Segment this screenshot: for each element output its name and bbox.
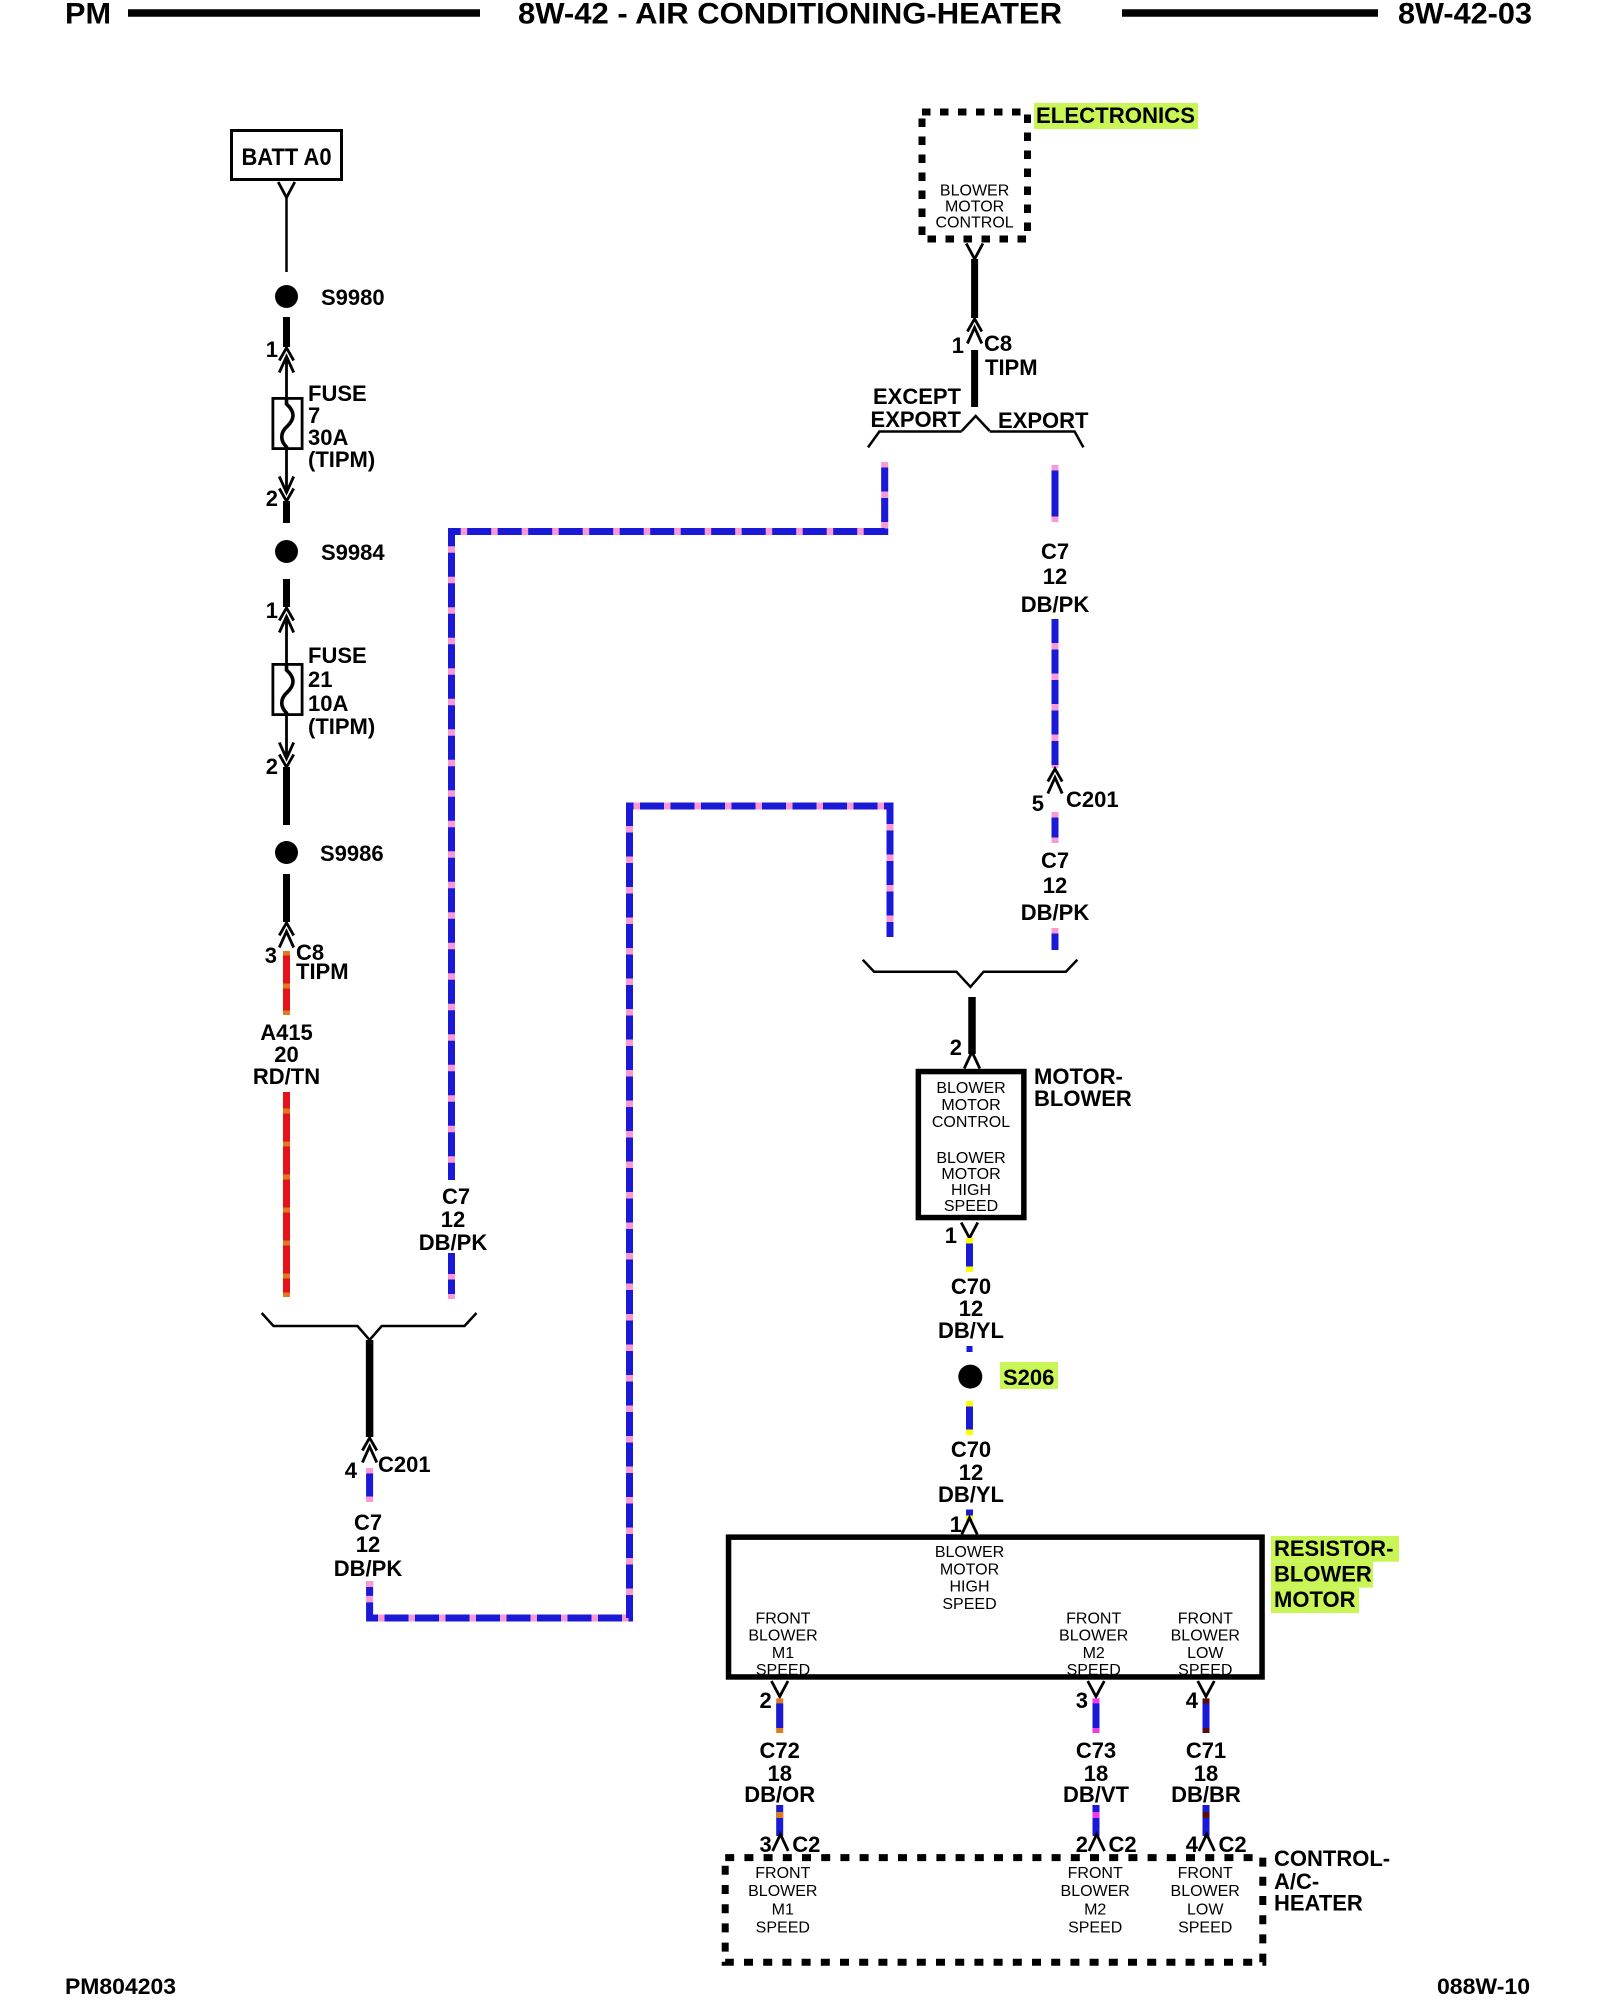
svg-text:BLOWER: BLOWER [1171, 1628, 1240, 1645]
svg-text:FRONT: FRONT [1178, 1865, 1233, 1882]
svg-text:HEATER: HEATER [1274, 1891, 1363, 1916]
svg-text:MOTOR: MOTOR [945, 199, 1004, 216]
svg-text:(TIPM): (TIPM) [308, 714, 375, 739]
svg-text:BLOWER: BLOWER [936, 1080, 1005, 1097]
svg-text:C7: C7 [442, 1184, 470, 1209]
svg-text:ELECTRONICS: ELECTRONICS [1036, 103, 1195, 128]
svg-text:DB/OR: DB/OR [744, 1782, 815, 1807]
svg-text:C2: C2 [1219, 1832, 1247, 1857]
svg-text:M2: M2 [1083, 1645, 1105, 1662]
svg-text:CONTROL: CONTROL [932, 1114, 1010, 1131]
svg-text:HIGH: HIGH [950, 1579, 990, 1596]
svg-text:FRONT: FRONT [1178, 1611, 1233, 1628]
svg-text:DB/VT: DB/VT [1063, 1782, 1130, 1807]
svg-text:12: 12 [356, 1532, 380, 1557]
svg-text:S9980: S9980 [321, 285, 385, 310]
svg-text:C2: C2 [792, 1832, 820, 1857]
svg-text:5: 5 [1032, 791, 1044, 816]
svg-text:C72: C72 [760, 1738, 800, 1763]
svg-text:C73: C73 [1076, 1738, 1116, 1763]
svg-text:BATT A0: BATT A0 [242, 144, 332, 171]
svg-text:DB/PK: DB/PK [334, 1556, 403, 1581]
svg-text:2: 2 [266, 486, 278, 511]
svg-text:1: 1 [950, 1512, 962, 1537]
svg-text:2: 2 [759, 1688, 771, 1713]
svg-text:(TIPM): (TIPM) [308, 447, 375, 472]
svg-text:SPEED: SPEED [756, 1662, 810, 1679]
svg-text:BLOWER: BLOWER [1061, 1883, 1130, 1900]
svg-text:8W-42-03: 8W-42-03 [1398, 0, 1532, 31]
svg-text:2: 2 [1076, 1832, 1088, 1857]
svg-text:FRONT: FRONT [755, 1865, 810, 1882]
svg-text:1: 1 [945, 1223, 957, 1248]
svg-text:BLOWER: BLOWER [1059, 1628, 1128, 1645]
svg-text:C201: C201 [378, 1452, 431, 1477]
svg-text:BLOWER: BLOWER [1171, 1883, 1240, 1900]
svg-text:SPEED: SPEED [1178, 1920, 1232, 1937]
svg-text:EXPORT: EXPORT [871, 407, 962, 432]
svg-text:SPEED: SPEED [1178, 1662, 1232, 1679]
svg-text:1: 1 [952, 333, 964, 358]
svg-text:2: 2 [950, 1035, 962, 1060]
svg-text:BLOWER: BLOWER [748, 1628, 817, 1645]
svg-text:CONTROL-: CONTROL- [1274, 1846, 1390, 1871]
svg-text:DB/PK: DB/PK [1021, 592, 1090, 617]
svg-text:BLOWER: BLOWER [935, 1544, 1004, 1561]
svg-text:BLOWER: BLOWER [1274, 1562, 1372, 1587]
svg-text:M1: M1 [772, 1901, 794, 1918]
svg-text:FRONT: FRONT [755, 1611, 810, 1628]
svg-text:FUSE: FUSE [308, 643, 367, 668]
svg-text:DB/YL: DB/YL [938, 1482, 1004, 1507]
svg-text:S9984: S9984 [321, 540, 385, 565]
svg-text:MOTOR: MOTOR [1274, 1587, 1356, 1612]
svg-text:BLOWER: BLOWER [940, 183, 1009, 200]
svg-text:2: 2 [266, 754, 278, 779]
svg-text:4: 4 [345, 1458, 358, 1483]
svg-text:MOTOR: MOTOR [941, 1166, 1000, 1183]
svg-text:HIGH: HIGH [951, 1182, 991, 1199]
svg-text:MOTOR: MOTOR [941, 1097, 1000, 1114]
svg-text:PM: PM [65, 0, 111, 31]
svg-text:FRONT: FRONT [1068, 1865, 1123, 1882]
svg-text:BLOWER: BLOWER [1034, 1086, 1132, 1111]
svg-text:DB/PK: DB/PK [419, 1230, 488, 1255]
svg-text:SPEED: SPEED [756, 1920, 810, 1937]
svg-text:C7: C7 [1041, 848, 1069, 873]
svg-text:MOTOR: MOTOR [940, 1561, 999, 1578]
svg-text:M2: M2 [1084, 1901, 1106, 1918]
svg-text:LOW: LOW [1187, 1901, 1224, 1918]
svg-text:C70: C70 [951, 1437, 991, 1462]
svg-text:1: 1 [266, 598, 278, 623]
svg-text:S206: S206 [1003, 1365, 1054, 1390]
svg-text:12: 12 [1043, 564, 1067, 589]
svg-text:TIPM: TIPM [296, 959, 349, 984]
svg-text:3: 3 [1076, 1688, 1088, 1713]
svg-text:DB/BR: DB/BR [1171, 1782, 1241, 1807]
svg-text:3: 3 [265, 943, 277, 968]
svg-text:CONTROL: CONTROL [935, 215, 1013, 232]
svg-text:21: 21 [308, 667, 332, 692]
svg-text:4: 4 [1186, 1832, 1199, 1857]
svg-text:8W-42 - AIR CONDITIONING-HEATE: 8W-42 - AIR CONDITIONING-HEATER [518, 0, 1062, 31]
svg-text:C2: C2 [1109, 1832, 1137, 1857]
svg-text:S9986: S9986 [320, 841, 384, 866]
svg-text:RESISTOR-: RESISTOR- [1274, 1536, 1393, 1561]
svg-text:C71: C71 [1186, 1738, 1226, 1763]
svg-text:RD/TN: RD/TN [253, 1064, 320, 1089]
svg-text:10A: 10A [308, 691, 348, 716]
svg-text:088W-10: 088W-10 [1437, 1974, 1530, 1999]
svg-text:SPEED: SPEED [1067, 1662, 1121, 1679]
svg-text:EXPORT: EXPORT [998, 408, 1089, 433]
svg-text:C8: C8 [984, 331, 1012, 356]
svg-text:C201: C201 [1066, 787, 1119, 812]
svg-text:SPEED: SPEED [944, 1198, 998, 1215]
svg-text:PM804203: PM804203 [65, 1974, 176, 1999]
svg-text:LOW: LOW [1187, 1645, 1224, 1662]
svg-text:BLOWER: BLOWER [748, 1883, 817, 1900]
svg-text:SPEED: SPEED [1068, 1920, 1122, 1937]
svg-text:4: 4 [1186, 1688, 1199, 1713]
svg-text:M1: M1 [772, 1645, 794, 1662]
svg-text:3: 3 [759, 1832, 771, 1857]
svg-text:EXCEPT: EXCEPT [873, 384, 962, 409]
svg-text:TIPM: TIPM [985, 355, 1038, 380]
svg-text:FRONT: FRONT [1066, 1611, 1121, 1628]
svg-text:DB/PK: DB/PK [1021, 900, 1090, 925]
svg-text:C7: C7 [1041, 539, 1069, 564]
svg-text:1: 1 [266, 337, 278, 362]
svg-text:BLOWER: BLOWER [936, 1150, 1005, 1167]
svg-text:12: 12 [441, 1207, 465, 1232]
svg-text:DB/YL: DB/YL [938, 1318, 1004, 1343]
svg-text:12: 12 [1043, 873, 1067, 898]
svg-text:SPEED: SPEED [942, 1596, 996, 1613]
